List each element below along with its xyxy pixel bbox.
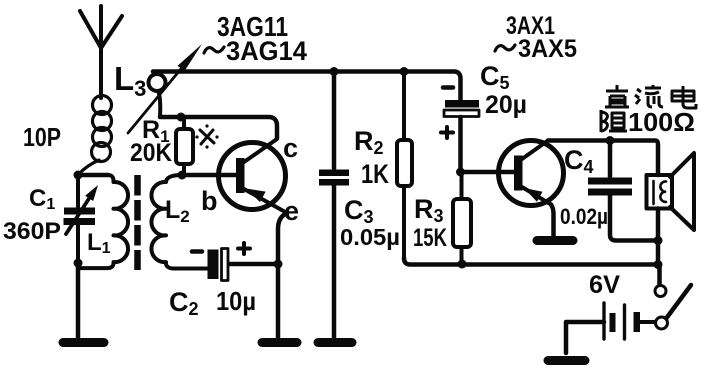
wire Q1 emitter down [278,213,287,264]
wire rail to switch [657,265,662,286]
wire Q2 emitter to ground [551,205,554,237]
ground (C3) [318,338,352,347]
wire battery to ground [566,322,604,353]
svg-text:R3: R3 [414,194,444,226]
svg-text:C3: C3 [344,195,374,227]
battery B (6V) [604,303,654,339]
svg-text:L3: L3 [114,60,146,101]
C5 plus polarity mark [441,127,453,138]
label ~3AX5 [495,45,515,51]
transistor Q2 [499,141,564,206]
node: tank top junction [74,171,83,180]
svg-text:10P: 10P [23,122,61,152]
C2 plus polarity mark [238,243,250,254]
node: Q2 base node [456,168,465,177]
capacitor C2 (electrolytic) [208,249,279,281]
switch S [655,285,691,329]
svg-text:C2: C2 [169,287,199,319]
svg-text:20µ: 20µ [485,91,527,119]
capacitor 10P (twisted-wire antenna coupling) [79,96,112,175]
transformer core (dashed line) [134,175,141,270]
wire top supply rail [153,72,461,101]
svg-text:b: b [201,186,218,216]
ground (battery) [548,356,585,365]
svg-text:c: c [283,133,298,163]
antenna [80,6,122,98]
inductor L2 [151,175,207,269]
wire emitter node to ground [276,264,281,338]
svg-text:20K: 20K [130,139,172,167]
capacitor C3 [319,72,349,339]
inductor L1 [78,175,128,268]
transistor Q1 [219,139,288,213]
wire tank bottom to ground [76,263,81,338]
resistor R1 [176,117,193,175]
svg-text:1K: 1K [361,159,389,189]
wire tank top [78,173,108,178]
reference mark (asterisk) [195,124,218,148]
svg-text:6V: 6V [589,271,620,299]
svg-text:L2: L2 [165,196,190,226]
capacitor C4 [588,141,655,241]
svg-text:360P: 360P [3,218,61,245]
C2 minus polarity mark [192,249,202,254]
L3 variable arrow [128,64,185,133]
resistor R3 [453,172,471,263]
label 阻100Ω [601,110,627,132]
wire Q2 base node to base [461,170,515,175]
svg-text:C1: C1 [29,185,55,213]
node: C3 top junction [330,67,339,76]
node: R1 top junction [177,113,186,122]
speaker [647,153,695,230]
variable capacitor C1 [64,175,99,262]
ground (Q1 emitter) [262,338,297,347]
resistor R2 [397,72,412,261]
svg-text:C5: C5 [480,61,510,93]
node: speaker bottom junction [654,236,663,245]
wire bottom rail [404,258,658,265]
capacitor C5 (electrolytic) [444,100,479,172]
svg-text:3AG14: 3AG14 [226,36,307,66]
wire base node to Q1 base [182,173,236,178]
ground (tank circuit) [63,338,104,347]
node: rail / switch junction [654,260,663,269]
svg-text:L1: L1 [87,229,111,257]
svg-text:15K: 15K [413,224,447,252]
wire feedback rail (L3 bottom to Q1 collector) [160,117,277,138]
svg-text:0.02µ: 0.02µ [560,204,608,229]
svg-text:0.05µ: 0.05µ [340,224,400,250]
C5 minus polarity mark [443,85,453,90]
svg-text:3AX5: 3AX5 [518,35,577,63]
svg-text:C4: C4 [564,145,594,177]
svg-text:10µ: 10µ [216,286,256,316]
node: R2 top junction [400,67,409,76]
svg-text:100Ω: 100Ω [628,107,695,137]
svg-text:R2: R2 [354,126,384,158]
label 直流电 (hand-drawn strokes) [605,85,696,108]
label ~3AG14 [204,47,224,53]
wire Q2 collector rail [548,141,658,176]
inductor L3 (variable, loop) [149,74,166,117]
wire speaker bottom to rail [656,209,661,265]
node: R3 bottom junction [458,260,467,269]
node: emitter node junction [274,260,283,269]
node: C4 top junction [606,136,615,145]
node: tank bottom junction [74,259,83,268]
ground (Q2 emitter) [537,236,573,245]
node: base node junction (R1 bottom / L2 top) [178,171,187,180]
